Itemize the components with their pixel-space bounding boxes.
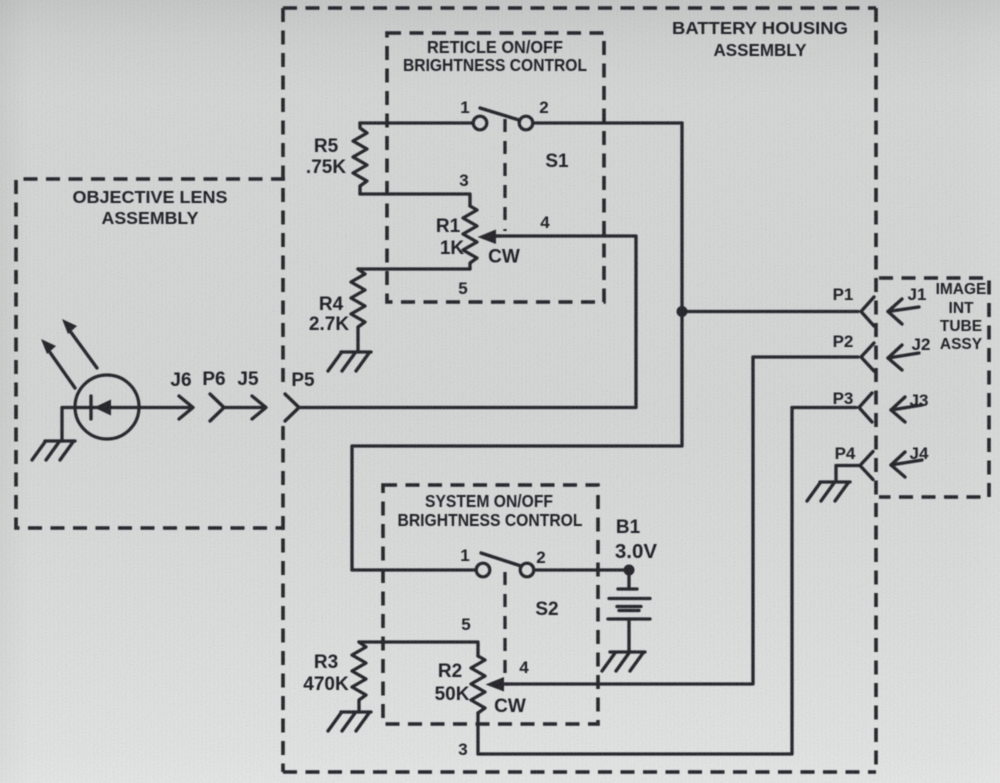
image int tube assy dashed box (879, 278, 989, 497)
R1 wiper arrow (478, 230, 501, 245)
wire P6 to J5 (224, 406, 262, 409)
potentiometer R1 (463, 206, 477, 269)
junction dot at battery (624, 565, 635, 576)
battery housing assembly title (672, 18, 848, 60)
wire R5 top to S1 pin 1 (360, 121, 473, 124)
battery housing assembly dashed box (283, 8, 876, 772)
B1 labels (615, 517, 657, 563)
resistor R4 (351, 269, 365, 352)
photodiode detector D1 (lens symbol) (75, 375, 139, 439)
resistor R3 (352, 642, 366, 712)
mechanical coupling S1-R1 (dashed) (503, 119, 506, 231)
connector P4 (chevron) (860, 452, 873, 480)
system on/off brightness control dashed box (383, 485, 598, 724)
wire R5 bottom to R1 top (pin 3) (360, 194, 470, 206)
connector labels J6 P6 J5 P5 (170, 369, 315, 391)
wire S2 pin 2 to battery (534, 568, 629, 571)
ground G3 (R3) (328, 712, 371, 731)
R5 labels (306, 136, 346, 178)
ground G2 (R4) (328, 352, 371, 371)
battery B1 (608, 570, 650, 652)
R2 labels (435, 661, 470, 705)
connector J4 (891, 452, 922, 477)
wire R2 bottom (pin 3) to P3 riser (478, 408, 792, 755)
connector J5 (arrowhead) (252, 396, 266, 419)
reticle box title (403, 37, 587, 75)
potentiometer R2 (471, 656, 485, 713)
R4 labels (309, 294, 349, 335)
ground G5 (P4) (807, 482, 850, 501)
system box title (398, 491, 583, 530)
wire P5 to R1 wiper (pin 4 net) (299, 236, 636, 408)
P labels (833, 285, 856, 463)
connector J1 (arrow into tube assy) (888, 299, 919, 324)
ground G4 (battery) (602, 652, 645, 671)
wire P3 (792, 406, 856, 409)
connector P6 (chevron) (210, 394, 224, 421)
switch S1 (473, 108, 533, 130)
reticle on/off brightness control dashed box (387, 33, 604, 302)
light ray arrows (41, 319, 97, 388)
wire R2 wiper to P2 drop (506, 357, 753, 684)
J labels (908, 285, 931, 463)
objective lens assembly title (73, 187, 228, 228)
connector P3 (chevron) (859, 393, 872, 422)
wire lens to J6 (139, 406, 190, 409)
connector P2 (chevron) (861, 343, 874, 371)
wire lens to ground (62, 408, 75, 442)
ground G1 (lens) (32, 441, 75, 460)
connector J6 (arrowhead) (179, 396, 193, 419)
wire S1 pin 2 to bus (533, 121, 682, 124)
bus wire S1 pin2 down to S2 (with junction to P1) (352, 123, 682, 570)
connector P5 (chevron) (285, 394, 299, 421)
connector J2 (888, 345, 919, 370)
image int tube assy title (936, 281, 987, 353)
objective lens assembly dashed box (16, 179, 285, 528)
switch S2 (476, 553, 534, 577)
wire R3 top to R2 top (pin 5 net) (359, 642, 478, 656)
mechanical coupling S2-R2 (dashed) (503, 572, 506, 680)
wire P4 to ground (836, 466, 860, 482)
resistor R5 (353, 123, 367, 194)
R1 labels (436, 216, 465, 259)
connector J3 (891, 397, 922, 422)
R2 wiper arrow (486, 677, 509, 692)
junction node dot (677, 306, 688, 317)
wire S2 left (352, 568, 476, 571)
R3 labels (303, 652, 349, 695)
wire R1 bottom (pin 5) to R4 top (358, 267, 470, 270)
connector P1 (chevron) (861, 297, 874, 326)
wire P2 (753, 355, 858, 358)
wire node to P1 (682, 310, 858, 313)
